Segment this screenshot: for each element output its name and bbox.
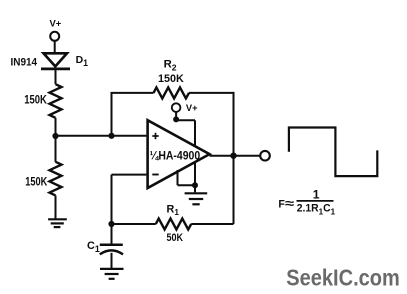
wire R2 right vertical down to output node xyxy=(233,92,235,156)
wire junction down to C1 xyxy=(111,224,113,244)
resistor R2 150K (horizontal) xyxy=(154,87,190,98)
wire - input vertical down xyxy=(111,175,113,224)
svg-text:C1: C1 xyxy=(87,240,100,254)
op-amp + input sign xyxy=(152,133,158,139)
node R1/C1 junction dot xyxy=(108,221,114,227)
wire V+ circle to corner dot xyxy=(175,112,177,120)
svg-text:2.1R1C1: 2.1R1C1 xyxy=(297,203,336,217)
svg-text:V+: V+ xyxy=(50,19,62,29)
svg-text:1: 1 xyxy=(313,187,320,201)
svg-text:150K: 150K xyxy=(24,93,47,107)
wire V+ terminal to diode anode xyxy=(54,41,56,53)
node V+ corner dot xyxy=(173,116,179,122)
op-amp - input sign xyxy=(152,174,158,176)
resistor 150K (upper left, vertical) xyxy=(50,84,62,118)
wire R1 left xyxy=(112,223,156,225)
wire resistor bottom to divider node xyxy=(55,118,57,162)
wire resistor lower 150K top lead xyxy=(55,155,57,162)
terminal output circle xyxy=(260,151,270,161)
node output junction dot xyxy=(230,153,236,159)
resistor R1 50K (horizontal) xyxy=(156,219,191,230)
svg-text:V+: V+ xyxy=(186,103,198,113)
wire R1 right vertical up to output node xyxy=(233,156,235,224)
capacitor C1 top plate xyxy=(100,243,123,246)
node supply/ground dot xyxy=(192,182,198,188)
wire op-amp output xyxy=(210,155,260,157)
wire divider node to op-amp + input xyxy=(56,135,147,137)
svg-text:IN914: IN914 xyxy=(11,56,38,68)
resistor 150K (lower left, vertical) xyxy=(50,162,62,196)
wire dot to ground xyxy=(194,185,196,192)
wire diode cathode to resistor R top xyxy=(55,69,57,84)
node divider junction dot xyxy=(52,133,58,139)
svg-text:≈: ≈ xyxy=(285,197,294,211)
svg-text:¼HA-4900: ¼HA-4900 xyxy=(150,149,201,163)
terminal V+ (top-left) circle xyxy=(50,32,59,41)
svg-text:SeekIC.com: SeekIC.com xyxy=(286,264,400,290)
svg-text:D1: D1 xyxy=(76,55,89,68)
wire R2 right horizontal xyxy=(189,92,234,94)
capacitor C1 bottom curved plate xyxy=(100,250,123,254)
wire R2 left vertical xyxy=(111,93,113,136)
wire - input horizontal xyxy=(112,174,147,176)
ground (C1) xyxy=(100,269,124,279)
square wave output symbol xyxy=(289,128,377,177)
ground (op-amp) xyxy=(185,193,208,204)
svg-text:50K: 50K xyxy=(167,232,184,244)
ground (divider) xyxy=(48,219,67,227)
wire R1 right xyxy=(191,223,233,225)
wire C1 to ground xyxy=(111,253,113,268)
diode D1 cathode bar xyxy=(41,68,70,71)
wire V+ corner to right xyxy=(176,119,195,121)
wire resistor to ground xyxy=(55,195,57,218)
wire op-amp V- notch horizontal xyxy=(178,184,196,186)
wire R2 left horizontal xyxy=(111,92,154,94)
wire op-amp V- notch vertical xyxy=(177,170,179,185)
svg-text:150K: 150K xyxy=(25,175,47,189)
node + input junction dot xyxy=(108,133,114,139)
svg-text:R2: R2 xyxy=(164,59,177,73)
svg-text:R1: R1 xyxy=(167,204,180,218)
svg-text:150K: 150K xyxy=(158,73,185,85)
op-amp U1 triangle xyxy=(148,120,210,188)
terminal V+ (op-amp supply) circle xyxy=(172,103,181,112)
wire supply vertical down through op-amp xyxy=(194,120,196,185)
diode D1 triangle xyxy=(44,53,68,66)
